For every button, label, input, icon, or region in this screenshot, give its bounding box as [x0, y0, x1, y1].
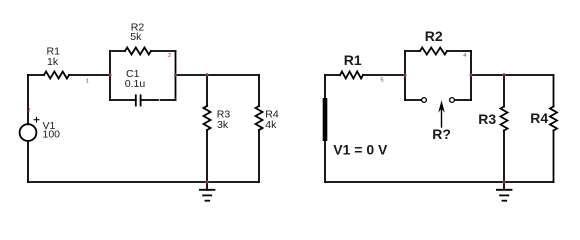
- svg-text:1k: 1k: [47, 56, 59, 68]
- wire: right block top edge left stub: [405, 50, 420, 52]
- wire: R4 top lead: [258, 75, 260, 106]
- resistor R3 (left circuit, 3k): [204, 106, 211, 130]
- wire: right circuit bottom rail: [325, 181, 554, 183]
- wire: parallel block right edge: [175, 51, 177, 100]
- svg-text:4: 4: [463, 53, 466, 59]
- wire: right terminal to right edge: [455, 99, 471, 101]
- wire: right block output to R4: [471, 74, 554, 76]
- wire: top edge right stub: [151, 50, 176, 52]
- arrow R? shaft: [441, 109, 443, 127]
- node dot: ground junction (left circuit): [206, 181, 209, 184]
- wire: R1 to parallel block: [69, 74, 110, 76]
- svg-text:2: 2: [168, 53, 171, 59]
- node dot: block right (left circuit): [174, 74, 177, 77]
- V1 plus sign: [34, 117, 39, 122]
- wire: left circuit top-left segment: [28, 74, 44, 76]
- node dot: ground junction (right circuit): [503, 181, 506, 184]
- wire: R3 bottom lead: [206, 130, 208, 182]
- svg-text:0.1u: 0.1u: [125, 78, 146, 90]
- svg-text:5k: 5k: [130, 31, 142, 43]
- resistor R1 (right circuit): [340, 72, 363, 79]
- capacitor C1 (0.1u) plates: [135, 95, 137, 105]
- resistor R4 (left circuit, 4k): [256, 106, 263, 130]
- ground (right circuit): [503, 182, 505, 190]
- node dot: block right (right circuit): [470, 74, 473, 77]
- ground (left circuit): [206, 182, 208, 190]
- node dot: block left (right circuit): [404, 74, 407, 77]
- arrowhead of R?: [438, 100, 445, 113]
- wire: block output to R4 top: [176, 74, 260, 76]
- wire: V1=0 top lead: [324, 75, 326, 98]
- wire: R4 right bottom lead: [553, 131, 555, 183]
- wire: R3 right top lead: [503, 75, 505, 107]
- svg-text:1: 1: [86, 78, 89, 84]
- wire: V1 top lead: [27, 75, 29, 124]
- svg-text:3k: 3k: [217, 119, 229, 131]
- svg-text:4k: 4k: [265, 119, 277, 131]
- resistor R3 (right circuit): [501, 107, 508, 131]
- wire: parallel block left edge: [109, 51, 111, 100]
- node dot: R3 top (left circuit): [206, 73, 209, 76]
- svg-text:R4: R4: [530, 110, 548, 126]
- node dot: R3 top (right circuit): [503, 73, 506, 76]
- svg-text:R3: R3: [478, 111, 496, 127]
- svg-text:2: 2: [27, 108, 30, 114]
- source V1 circle (100): [20, 124, 37, 141]
- node dot: block left (left circuit): [109, 74, 112, 77]
- wire: R4 bottom lead: [258, 130, 260, 182]
- resistor R4 (right circuit): [550, 107, 557, 131]
- resistor R2 (right circuit): [420, 48, 447, 55]
- svg-text:R1: R1: [344, 52, 362, 68]
- resistor R2 (left circuit, 5k): [125, 48, 151, 55]
- wire: R1 to block: [363, 74, 405, 76]
- wire: bottom edge left of capacitor: [110, 99, 136, 101]
- wire: bottom edge right of capacitor (with break): [141, 99, 158, 101]
- wire: V1 bottom lead: [27, 141, 29, 182]
- wire: top edge left stub: [110, 50, 125, 52]
- wire: R4 right top lead: [553, 75, 555, 107]
- terminal circle right (open R? socket): [450, 98, 455, 103]
- svg-text:5: 5: [381, 78, 384, 84]
- wire: right circuit top-left segment: [325, 74, 340, 76]
- wire: right block left edge: [404, 51, 406, 100]
- wire: V1=0 bottom lead: [324, 141, 326, 182]
- svg-text:R?: R?: [432, 126, 451, 142]
- wire: left circuit bottom rail: [28, 181, 259, 183]
- wire: R3 top lead: [206, 75, 208, 106]
- terminal circle left (open R? socket): [422, 98, 427, 103]
- svg-text:R2: R2: [425, 28, 443, 44]
- resistor R1 (left circuit, 1k): [44, 72, 69, 79]
- wire: right block right edge: [470, 51, 472, 100]
- wire: R3 right bottom lead: [503, 131, 505, 183]
- wire: right block top edge right stub: [447, 50, 471, 52]
- source V1 = 0 V shorted bar: [323, 98, 328, 141]
- wire: bottom edge to left terminal: [405, 99, 421, 101]
- svg-text:100: 100: [43, 128, 61, 140]
- svg-text:V1 = 0 V: V1 = 0 V: [333, 141, 388, 157]
